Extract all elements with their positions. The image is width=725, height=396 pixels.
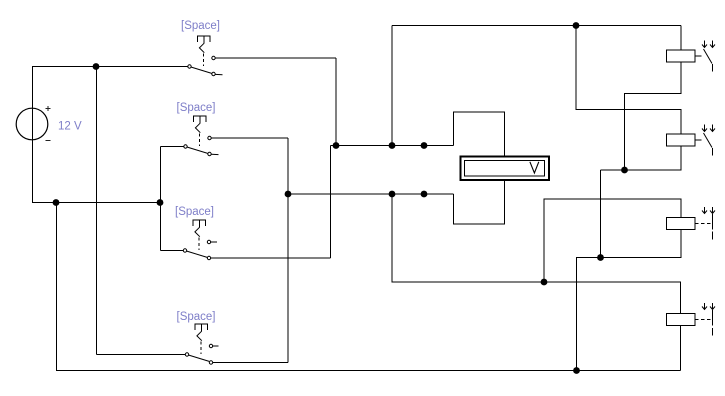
wire from S4 lower throw up to lower rail: [213, 362, 288, 364]
wire relay RL2 coil bottom return: [601, 146, 682, 170]
wire feed into S2 pivot: [161, 146, 184, 148]
push switch S4 [Space]: [177, 311, 219, 364]
svg-text:[Space]: [Space]: [181, 20, 220, 32]
svg-text:12 V: 12 V: [58, 121, 82, 133]
wire top rail down to relay RL1 coil: [680, 26, 682, 51]
node relay2 feed tee on top rail: [573, 22, 580, 29]
node S1 drop on upper rail: [333, 142, 340, 149]
wire from S2 upper throw down to lower rail: [211, 137, 288, 139]
node top-rail riser on upper rail: [389, 142, 396, 149]
node probe dot upper rail: [421, 142, 428, 149]
wire left rail vertical through battery: [32, 67, 34, 203]
wire upper rail: [331, 145, 454, 147]
push switch S2 [Space]: [177, 102, 219, 156]
wire return bus down: [600, 170, 602, 258]
svg-text:[Space]: [Space]: [177, 311, 216, 323]
wire riser from upper rail to top rail: [391, 26, 393, 146]
wire lower rail to voltmeter bottom: [454, 180, 505, 224]
wire top feed from battery to switch S1: [32, 66, 188, 68]
relay RL1: [667, 41, 716, 72]
wire lower rail: [288, 193, 454, 195]
node probe dot lower rail: [421, 191, 428, 198]
relay RL3: [667, 207, 716, 240]
push switch S1 [Space]: [181, 20, 223, 76]
node relay3/4 feed drop: [389, 191, 396, 198]
wire relay RL3 feed from lower rail node: [544, 199, 681, 282]
wire vertical from node down to switch S4 feed: [96, 67, 98, 355]
wire from S1 upper throw to upper rail: [215, 57, 336, 59]
node battery- branch: [53, 199, 60, 206]
wire bottom rail: [56, 370, 681, 372]
push switch S3 [Space]: [175, 206, 217, 260]
wire relay2 feed: [576, 26, 681, 135]
node relay1+relay2 return junction: [621, 167, 628, 174]
wire relay RL3 coil bottom return: [601, 230, 682, 258]
wire relay RL1 coil bottom return: [625, 62, 682, 170]
wire relay3/4 feed horizontal: [392, 194, 681, 314]
wire top rail: [392, 25, 681, 27]
wire return bus to bottom rail: [577, 258, 601, 371]
wire vertical down-left to bottom rail: [56, 203, 58, 371]
node return bus junction: [597, 254, 604, 261]
relay RL2: [667, 125, 716, 156]
relay RL4: [667, 303, 716, 336]
wire feed into S4 pivot: [97, 354, 186, 356]
wire feed into S3 pivot: [161, 250, 184, 252]
node battery+ branch: [93, 63, 100, 70]
wire battery- horizontal: [32, 202, 161, 204]
wire relay RL4 coil bottom return: [680, 326, 682, 371]
node bottom rail tee: [573, 367, 580, 374]
node lower rail junction: [285, 191, 292, 198]
svg-text:[Space]: [Space]: [177, 102, 216, 114]
wire from S3 lower throw up to upper rail: [211, 257, 331, 259]
wire upper rail to voltmeter top: [454, 112, 505, 157]
battery B1: [16, 106, 50, 141]
wire vertical S2-S3 feed loop: [160, 147, 162, 251]
node relay3/relay4 feed junction: [541, 279, 548, 286]
svg-text:[Space]: [Space]: [175, 206, 214, 218]
voltmeter M1: [461, 157, 550, 181]
node S2/S3 feed tee: [157, 199, 164, 206]
